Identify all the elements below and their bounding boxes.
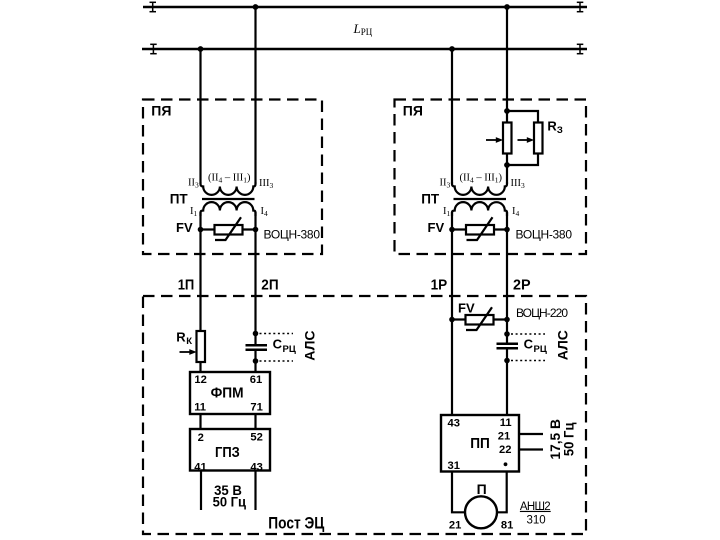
wire 2Р below transformer (to capacitor)	[506, 212, 508, 344]
capacitor СРЦ right: plates	[497, 344, 519, 348]
АЛС dotted tap top right	[511, 333, 545, 335]
varistor FV right ПЯ: wire	[452, 228, 507, 230]
varistor FV right ПЯ: node left	[449, 227, 455, 233]
varistor FV ВОЦН-220: node left	[449, 317, 455, 323]
transformer ПТ right: core	[454, 198, 507, 200]
feeder wire below ГПЗ right	[254, 471, 256, 511]
rail line 1 (top rail)	[143, 6, 587, 8]
svg-text:50 Гц: 50 Гц	[561, 422, 577, 456]
svg-text:III3: III3	[511, 178, 526, 190]
svg-text:(II4 – III1): (II4 – III1)	[460, 173, 503, 185]
svg-text:II3: II3	[188, 177, 199, 189]
wire 2Р capacitor to ПП	[506, 349, 508, 416]
wire ФПМ-ГПЗ right	[254, 414, 256, 429]
svg-text:2П: 2П	[261, 276, 278, 293]
svg-text:71: 71	[250, 401, 262, 413]
capacitor СРЦ left: node top	[253, 331, 259, 337]
svg-text:ПТ: ПТ	[170, 192, 189, 207]
capacitor СРЦ right: node top	[504, 331, 510, 337]
wire 1Р below transformer	[451, 212, 453, 415]
svg-text:АЛС: АЛС	[554, 330, 570, 360]
winding label II3 left	[188, 177, 199, 189]
svg-text:22: 22	[499, 444, 511, 456]
wire 2П below transformer (to capacitor top plate)	[254, 212, 256, 345]
label R3	[547, 119, 563, 136]
arrow into R3 element 2	[518, 137, 535, 143]
wire 1П (x=200.5, rail2 down to transformer)	[199, 49, 201, 184]
varistor FV ВОЦН-220: body	[466, 315, 494, 325]
feeder wire below ГПЗ left	[200, 471, 202, 511]
svg-text:АНШ2: АНШ2	[520, 501, 551, 513]
insulated joint, rail 2 left	[150, 44, 157, 54]
motor П circle	[465, 496, 497, 528]
capacitor СРЦ right: node bottom	[504, 358, 510, 364]
varistor FV left: node left	[198, 227, 204, 233]
svg-text:З: З	[557, 125, 563, 136]
svg-text:I4: I4	[512, 206, 520, 218]
svg-text:I4: I4	[261, 206, 269, 218]
wire 2П (x=255.5, rail1 down to transformer)	[254, 7, 256, 184]
wire 2П capacitor bottom to ФПМ	[254, 350, 256, 372]
label RК	[176, 330, 192, 348]
svg-text:2: 2	[198, 432, 204, 444]
winding label III3 right	[511, 178, 526, 190]
varistor FV right ПЯ: node right	[504, 227, 510, 233]
svg-text:С: С	[273, 337, 283, 352]
resistor R3 element 2	[534, 123, 543, 154]
box ПЯ right (dashed)	[395, 100, 587, 255]
insulated joint, rail 1 left	[150, 2, 157, 12]
svg-text:FV: FV	[458, 300, 475, 315]
svg-text:21: 21	[498, 431, 510, 443]
svg-text:43: 43	[250, 461, 262, 473]
varistor FV left: node right	[253, 227, 259, 233]
node on rail 1 at 2Р	[504, 4, 510, 10]
svg-text:61: 61	[250, 374, 262, 386]
label 35 В 50 Гц	[213, 482, 247, 510]
R3 node bottom	[504, 162, 510, 168]
svg-text:1П: 1П	[178, 276, 195, 293]
varistor FV ВОЦН-220: diagonal stroke	[466, 307, 492, 330]
svg-text:РЦ: РЦ	[361, 27, 373, 37]
svg-text:1Р: 1Р	[431, 276, 448, 293]
svg-text:Пост ЭЦ: Пост ЭЦ	[268, 515, 324, 533]
svg-text:С: С	[524, 337, 534, 352]
winding label (II4 – III1) right	[460, 173, 503, 185]
svg-text:ПТ: ПТ	[421, 192, 440, 207]
varistor FV left: wire	[201, 228, 256, 230]
wire 2Р (x=507, rail1 down to R3 / transformer)	[506, 7, 508, 184]
supply wire 22	[519, 448, 543, 450]
svg-text:21: 21	[449, 519, 461, 531]
svg-text:ПП: ПП	[470, 435, 490, 452]
winding label I1 right	[443, 206, 451, 218]
node on rail 1 at 2П	[253, 4, 259, 10]
wire ФПМ-ГПЗ left	[199, 414, 201, 429]
transformer ПТ left: core	[202, 198, 255, 200]
svg-text:АЛС: АЛС	[301, 330, 317, 360]
svg-text:III3: III3	[259, 178, 274, 190]
node on rail 2 at 1Р	[449, 46, 455, 52]
svg-text:К: К	[186, 336, 192, 347]
winding label III3 left	[259, 178, 274, 190]
svg-text:I1: I1	[443, 206, 451, 218]
svg-text:310: 310	[527, 514, 546, 526]
svg-text:РЦ: РЦ	[283, 344, 296, 355]
svg-text:11: 11	[500, 417, 512, 429]
arrow into R3 element 1	[486, 137, 503, 143]
label 17,5 В 50 Гц (rotated)	[547, 419, 577, 460]
winding label II3 right	[440, 177, 451, 189]
svg-text:L: L	[353, 21, 361, 36]
insulated joint, rail 2 right	[577, 44, 584, 54]
wire ПП to motor П left	[452, 472, 465, 513]
АЛС dotted tap top left	[260, 333, 294, 335]
svg-text:ВОЦН-380: ВОЦН-380	[516, 228, 573, 242]
svg-text:R: R	[547, 119, 557, 134]
label СРЦ left	[273, 337, 296, 355]
svg-text:ПЯ: ПЯ	[403, 102, 423, 118]
resistor RК	[197, 331, 206, 362]
АЛС dotted tap bottom left	[260, 360, 294, 362]
svg-text:ГПЗ: ГПЗ	[215, 444, 240, 461]
label СРЦ right	[524, 337, 547, 355]
capacitor СРЦ left: node bottom	[253, 358, 259, 364]
box ПЯ left (dashed)	[143, 100, 322, 255]
capacitor СРЦ left: plates	[246, 345, 268, 349]
varistor FV ВОЦН-220: node right	[504, 317, 510, 323]
svg-text:52: 52	[250, 432, 262, 444]
pin * mark	[504, 462, 508, 466]
block ПП	[441, 415, 519, 472]
winding label I4 right	[512, 206, 520, 218]
resistor R3 assembly: node top	[504, 108, 510, 114]
svg-text:43: 43	[448, 418, 460, 430]
transformer ПТ left: primary winding (top)	[201, 183, 256, 195]
winding label (II4 – III1) left	[208, 173, 251, 185]
svg-text:II3: II3	[440, 177, 451, 189]
supply wire 21	[519, 433, 543, 435]
svg-text:ПЯ: ПЯ	[151, 102, 171, 118]
svg-text:R: R	[176, 330, 186, 345]
АЛС dotted tap bottom right	[511, 360, 545, 362]
arrow into RК	[180, 349, 197, 355]
wire ПП to motor П right	[497, 472, 507, 513]
svg-text:I1: I1	[190, 206, 198, 218]
svg-text:2Р: 2Р	[513, 276, 531, 293]
transformer ПТ right: secondary winding (bottom)	[452, 202, 507, 216]
label L_РЦ	[353, 21, 373, 37]
svg-text:(II4 – III1): (II4 – III1)	[208, 173, 251, 185]
block ФПМ	[190, 372, 270, 414]
wire 1Р (x=452, rail2 down to transformer)	[451, 49, 453, 184]
svg-text:РЦ: РЦ	[534, 344, 547, 355]
varistor FV ВОЦН-220: wire	[452, 318, 507, 320]
insulated joint, rail 1 right	[577, 2, 584, 12]
varistor FV right ПЯ: diagonal stroke	[467, 217, 493, 240]
box Пост ЭЦ (dashed)	[143, 296, 586, 534]
resistor R3 element 1	[503, 123, 512, 154]
svg-text:ФПМ: ФПМ	[211, 385, 244, 402]
wire 1П below transformer	[199, 212, 201, 372]
svg-text:ВОЦН-220: ВОЦН-220	[516, 306, 568, 320]
varistor FV left: body	[215, 225, 243, 235]
varistor FV right ПЯ: body	[466, 225, 494, 235]
svg-text:12: 12	[194, 374, 206, 386]
transformer ПТ right: primary winding (top)	[452, 183, 507, 195]
svg-text:П: П	[477, 481, 487, 497]
varistor FV left: diagonal stroke	[215, 217, 241, 240]
winding label I4 left	[261, 206, 269, 218]
R3 parallel branch wire	[507, 111, 538, 165]
svg-text:31: 31	[448, 460, 460, 472]
svg-text:FV: FV	[428, 220, 445, 235]
winding label I1 left	[190, 206, 198, 218]
svg-text:ВОЦН-380: ВОЦН-380	[264, 228, 321, 242]
block ГПЗ	[190, 429, 270, 471]
transformer ПТ left: secondary winding (bottom)	[201, 202, 256, 216]
svg-text:50 Гц: 50 Гц	[213, 493, 247, 509]
svg-text:FV: FV	[176, 220, 193, 235]
node on rail 2 at 1П	[198, 46, 204, 52]
svg-text:11: 11	[194, 401, 206, 413]
svg-text:81: 81	[501, 519, 513, 531]
rail line 2 (bottom rail)	[142, 48, 587, 50]
